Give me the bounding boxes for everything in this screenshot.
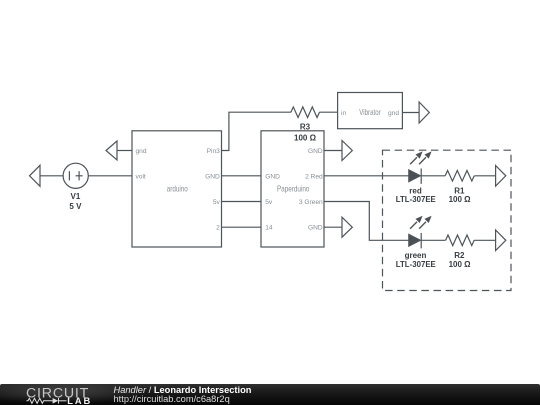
- net flag (green row right): [496, 230, 506, 251]
- IC block arduino: [132, 131, 222, 247]
- svg-text:gnd: gnd: [388, 110, 399, 117]
- svg-text:in: in: [341, 110, 346, 117]
- resistor R1: [445, 171, 474, 182]
- svg-text:100 Ω: 100 Ω: [449, 260, 472, 269]
- svg-text:2 Red: 2 Red: [305, 173, 323, 180]
- svg-text:red: red: [409, 186, 422, 195]
- svg-text:LAB: LAB: [67, 396, 92, 405]
- svg-text:R3: R3: [300, 122, 311, 131]
- net flag (gnd, left of arduino): [106, 141, 117, 160]
- wire (arduino GND to paperduino GND): [222, 175, 262, 177]
- svg-text:100 Ω: 100 Ω: [449, 195, 472, 204]
- svg-text:Vibrator: Vibrator: [359, 108, 381, 117]
- svg-text:GND: GND: [308, 148, 323, 155]
- svg-text:Paperduino: Paperduino: [277, 184, 310, 193]
- svg-text:GND: GND: [205, 173, 220, 180]
- svg-text:100 Ω: 100 Ω: [294, 133, 317, 142]
- wire: [474, 175, 495, 177]
- svg-text:GND: GND: [308, 225, 323, 232]
- svg-text:R2: R2: [454, 251, 465, 260]
- net flag (left of V1): [30, 165, 41, 186]
- wire (2 Red to red LED): [324, 175, 409, 177]
- wire (arduino 5v to paperduino 5v): [222, 201, 262, 203]
- wire (Pin3 to R3): [222, 112, 291, 150]
- svg-text:2: 2: [216, 225, 220, 232]
- svg-text:GND: GND: [265, 173, 280, 180]
- svg-text:3 Green: 3 Green: [299, 199, 323, 206]
- net flag (paperduino GND bottom): [342, 217, 352, 237]
- svg-text:volt: volt: [136, 173, 146, 180]
- voltage source V1: [63, 163, 88, 188]
- net flag (vibrator gnd): [419, 102, 429, 123]
- LED red LTL-307EE: [409, 151, 432, 184]
- dashed grouping box: [383, 150, 512, 290]
- wire (arduino 2 to paperduino 14): [222, 226, 262, 228]
- svg-text:gnd: gnd: [136, 148, 147, 155]
- svg-text:R1: R1: [454, 186, 465, 195]
- svg-text:LTL-307EE: LTL-307EE: [396, 260, 437, 269]
- CircuitLab logo: [0, 384, 110, 405]
- LED green LTL-307EE: [409, 216, 432, 249]
- wire: [324, 150, 342, 152]
- wire: [40, 175, 63, 177]
- wire: [324, 226, 342, 228]
- net flag (paperduino GND top): [342, 141, 352, 161]
- svg-text:5 V: 5 V: [69, 202, 82, 211]
- svg-text:5v: 5v: [265, 199, 273, 206]
- net flag (red row right): [496, 166, 506, 187]
- IC block Paperduino: [261, 131, 324, 247]
- resistor R2: [446, 235, 475, 246]
- wire: [421, 175, 445, 177]
- svg-text:Pin3: Pin3: [207, 148, 221, 155]
- svg-text:green: green: [405, 251, 427, 260]
- wire: [474, 239, 496, 241]
- footer bar: [0, 384, 540, 405]
- wire: [421, 239, 445, 241]
- wire: [88, 175, 132, 177]
- svg-text:LTL-307EE: LTL-307EE: [396, 195, 437, 204]
- svg-text:V1: V1: [71, 192, 81, 201]
- IC block Vibrator: [338, 93, 403, 129]
- svg-text:arduino: arduino: [167, 184, 188, 193]
- wire: [117, 150, 132, 152]
- wire (3 Green to green LED): [324, 202, 409, 241]
- resistor R3: [291, 107, 320, 118]
- svg-text:14: 14: [265, 225, 273, 232]
- svg-text:5v: 5v: [213, 199, 221, 206]
- wire: [402, 112, 419, 114]
- wire: [319, 111, 337, 113]
